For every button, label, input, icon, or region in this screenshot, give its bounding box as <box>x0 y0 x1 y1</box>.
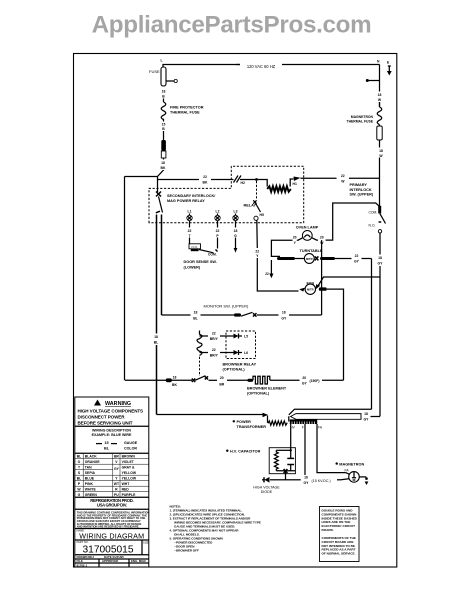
label 18 W <box>376 148 385 159</box>
svg-text:AppliancePartsPros.com: AppliancePartsPros.com <box>92 12 372 39</box>
svg-text:317005015: 317005015 <box>83 545 134 556</box>
coil top wire <box>200 335 209 337</box>
svg-text:22: 22 <box>203 175 207 179</box>
label 18 BL on left vertical <box>152 334 161 346</box>
svg-text:H2: H2 <box>241 181 245 185</box>
svg-text:USA GROUP DIV.: USA GROUP DIV. <box>97 502 127 507</box>
browner row splice <box>166 378 172 382</box>
svg-text:GY: GY <box>302 381 308 385</box>
svg-text:20: 20 <box>302 376 306 380</box>
svg-text:15: 15 <box>162 123 166 127</box>
svg-text:(15 KV.DC.): (15 KV.DC.) <box>312 479 331 483</box>
svg-text:81762-1: 81762-1 <box>77 563 88 567</box>
browner switch <box>192 379 195 383</box>
svg-text:HIGH VOLTAGE COMPONENTS: HIGH VOLTAGE COMPONENTS <box>78 408 144 413</box>
wire <box>270 379 300 381</box>
svg-text:N.O.: N.O. <box>369 224 376 228</box>
svg-text:FUSE: FUSE <box>149 69 160 74</box>
wire left vertical to transformer <box>157 414 263 416</box>
arrow terminal H1 <box>294 177 301 182</box>
svg-text:TRANSFORMER: TRANSFORMER <box>237 425 267 429</box>
junction node <box>255 178 258 181</box>
wire color table <box>75 452 149 454</box>
svg-text:RED: RED <box>122 488 130 492</box>
svg-text:15: 15 <box>104 441 108 445</box>
svg-text:22: 22 <box>255 249 259 253</box>
svg-text:L5: L5 <box>244 335 248 339</box>
svg-text:ORANGE: ORANGE <box>85 460 101 464</box>
splice X on bottom <box>284 469 288 473</box>
svg-text:VIOLET: VIOLET <box>122 460 135 464</box>
magnetron label <box>336 462 338 464</box>
svg-text:TURNTABLE: TURNTABLE <box>300 249 323 253</box>
wire down to COM junction <box>379 158 381 207</box>
svg-text:20: 20 <box>220 376 224 380</box>
connector cylinder <box>377 126 382 140</box>
turntable left connector <box>277 257 295 260</box>
svg-text:GY: GY <box>281 317 287 321</box>
svg-text:YELLOW: YELLOW <box>122 477 137 481</box>
svg-text:BK: BK <box>172 383 177 387</box>
wire feeder bottom <box>361 416 380 418</box>
svg-text:BROWNER RELAY: BROWNER RELAY <box>223 363 257 367</box>
coil bottom wire <box>200 352 209 354</box>
wire 22 Y down from relay <box>256 220 259 248</box>
svg-text:BL: BL <box>77 455 82 459</box>
wire left vertical to browner row <box>124 177 126 381</box>
label 18 BK <box>159 160 168 171</box>
svg-text:22: 22 <box>265 272 269 276</box>
primary interlock COM <box>378 206 381 214</box>
svg-text:L2: L2 <box>216 210 220 214</box>
primary interlock drop wire <box>379 233 381 255</box>
wire junction to left branch <box>125 176 158 178</box>
label 18 GY <box>362 411 371 423</box>
harness sleeve on feeder <box>291 414 362 420</box>
svg-text:COM.: COM. <box>368 210 377 214</box>
stub arrow below junction <box>270 260 272 274</box>
svg-text:L6: L6 <box>244 351 248 355</box>
dashed box secondary interlock / mag power relay <box>149 166 304 223</box>
wire lamp to primary interlock COM <box>326 203 380 240</box>
svg-text:BLUE: BLUE <box>85 477 95 481</box>
magnetron antenna <box>359 476 366 478</box>
primary interlock blade <box>380 213 386 223</box>
svg-text:18: 18 <box>161 161 165 165</box>
HV bus wire <box>286 479 301 481</box>
monitor riser wire <box>321 240 323 315</box>
svg-text:BR/Y: BR/Y <box>210 337 219 341</box>
magnetron thermal fuse <box>377 107 382 125</box>
svg-text:18: 18 <box>378 93 382 97</box>
svg-text:POWER: POWER <box>237 420 252 424</box>
link down to HV bus <box>285 471 287 480</box>
wire <box>379 140 381 148</box>
svg-text:N.O.: N.O. <box>192 245 199 249</box>
svg-text:20: 20 <box>293 236 297 240</box>
HV drop wire <box>290 424 292 450</box>
svg-text:H5: H5 <box>260 213 264 217</box>
primary interlock NO terminal <box>378 230 381 233</box>
svg-text:GAUGE: GAUGE <box>124 441 138 445</box>
transformer secondary comb <box>290 419 317 424</box>
svg-text:OVEN LAMP: OVEN LAMP <box>296 226 319 230</box>
svg-text:22: 22 <box>188 229 192 233</box>
svg-text:COLOR: COLOR <box>124 446 137 450</box>
fan left terminal <box>299 288 305 292</box>
svg-text:EXAMPLE: BLUE WIRE: EXAMPLE: BLUE WIRE <box>92 433 132 437</box>
junction dot tap <box>366 79 369 82</box>
svg-text:BROWNER ELEMENT: BROWNER ELEMENT <box>247 387 287 391</box>
svg-text:F: F <box>302 425 304 429</box>
svg-text:TAN: TAN <box>85 466 92 470</box>
svg-text:18: 18 <box>282 311 286 315</box>
fan right connector <box>319 287 327 290</box>
wire jog <box>158 158 164 192</box>
turntable drop wire <box>371 259 373 410</box>
svg-text:GY: GY <box>114 467 120 471</box>
svg-text:L3: L3 <box>234 210 238 214</box>
wire 22 BK to relay <box>158 179 200 181</box>
wire browner row <box>125 379 192 381</box>
magnetron tube <box>349 472 360 483</box>
monitor switch wire <box>162 314 191 316</box>
border frame <box>74 54 397 568</box>
svg-text:BL: BL <box>104 446 110 450</box>
diode L6 <box>234 350 239 355</box>
label 18 W <box>376 92 384 103</box>
svg-text:WHT: WHT <box>122 482 131 486</box>
svg-text:18: 18 <box>364 412 368 416</box>
relay coil <box>257 180 268 187</box>
browner relay coil <box>199 331 201 335</box>
label 18 GY <box>376 255 385 267</box>
svg-text:O: O <box>78 460 81 464</box>
svg-text:GY: GY <box>364 418 370 422</box>
relay switch H5 <box>253 200 256 203</box>
F drop wire <box>304 424 306 475</box>
svg-text:18: 18 <box>194 311 198 315</box>
label 22 P <box>213 228 222 238</box>
bleed resistor <box>274 450 278 470</box>
svg-text:22: 22 <box>212 332 216 336</box>
svg-text:BL: BL <box>77 477 82 481</box>
wire <box>163 99 165 103</box>
svg-text:SEPIA: SEPIA <box>85 471 96 475</box>
svg-text:WHITE: WHITE <box>85 488 97 492</box>
svg-text:RELAY: RELAY <box>244 204 257 208</box>
dashed link coil to switch <box>199 357 201 376</box>
svg-text:WIRING DIAGRAM: WIRING DIAGRAM <box>79 531 144 540</box>
monitor switch <box>234 313 241 316</box>
svg-text:L: L <box>161 59 163 63</box>
warning triangle <box>94 400 101 406</box>
svg-text:MAGNETRON: MAGNETRON <box>339 463 364 467</box>
svg-text:--BROWNER OFF: --BROWNER OFF <box>174 548 199 552</box>
svg-text:(150F): (150F) <box>310 379 320 383</box>
FA drop wire <box>317 424 346 473</box>
svg-text:INTERLOCK: INTERLOCK <box>350 188 372 192</box>
browner relay dashed box <box>226 331 256 359</box>
cap bottom wire <box>276 470 295 472</box>
svg-text:GY: GY <box>304 481 310 485</box>
svg-text:GRAY &: GRAY & <box>122 466 135 470</box>
svg-text:PINK: PINK <box>85 482 94 486</box>
capacitor symbol <box>290 450 292 458</box>
svg-text:(OPTIONAL): (OPTIONAL) <box>247 392 270 396</box>
svg-text:18: 18 <box>234 229 238 233</box>
splice connector solid <box>161 140 166 151</box>
svg-text:MONITOR SW. (UPPER): MONITOR SW. (UPPER) <box>204 303 249 308</box>
notes <box>170 504 261 552</box>
svg-text:WT: WT <box>114 482 120 486</box>
svg-text:DIODE: DIODE <box>261 490 273 494</box>
svg-text:H1: H1 <box>293 182 297 186</box>
svg-text:PART NO.: PART NO. <box>77 540 89 544</box>
svg-text:YELLOW: YELLOW <box>122 471 137 475</box>
title block outer box <box>75 397 149 567</box>
lamp left lead <box>297 238 303 240</box>
svg-text:OF NORMAL SERVICE.: OF NORMAL SERVICE. <box>322 552 356 556</box>
svg-text:GY: GY <box>354 260 360 264</box>
browner element <box>248 379 254 382</box>
relay switch dashed link <box>256 181 258 200</box>
wire N drop <box>379 65 381 108</box>
fan feed wire arrow from interlock <box>318 277 380 286</box>
svg-text:(OPTIONAL): (OPTIONAL) <box>223 368 246 372</box>
svg-text:FIRE PROTECTOR: FIRE PROTECTOR <box>170 106 204 110</box>
door sense switch N.O. <box>189 244 201 249</box>
circuit board note box <box>320 507 360 562</box>
wire 22 W to primary interlock <box>301 177 337 179</box>
cap internal top wire <box>276 449 290 451</box>
label 22 T <box>185 228 194 238</box>
svg-text:BOARD.: BOARD. <box>322 528 334 532</box>
diode L5 <box>234 334 239 339</box>
svg-text:BK: BK <box>161 166 166 170</box>
svg-text:PRIMARY: PRIMARY <box>350 183 368 187</box>
svg-text:18: 18 <box>379 149 383 153</box>
svg-text:22: 22 <box>212 348 216 352</box>
legal paragraph <box>77 511 150 529</box>
svg-text:SW. (UPPER): SW. (UPPER) <box>350 193 374 197</box>
svg-text:MAGNETRON: MAGNETRON <box>351 115 374 119</box>
svg-text:22: 22 <box>216 229 220 233</box>
svg-text:BROWN: BROWN <box>122 455 136 459</box>
wire twin drops <box>156 215 158 415</box>
svg-text:(LOWER): (LOWER) <box>184 266 201 270</box>
label 18 G <box>231 228 240 238</box>
svg-text:18: 18 <box>173 376 177 380</box>
secondary interlock switch <box>156 192 161 197</box>
wire lamp to turntable junction <box>271 240 292 256</box>
svg-text:HIGH VOLTAGE: HIGH VOLTAGE <box>253 486 280 490</box>
svg-text:H.V. CAPACITOR: H.V. CAPACITOR <box>230 450 261 454</box>
high voltage diode <box>270 479 286 481</box>
svg-text:18: 18 <box>154 335 158 339</box>
HV capacitor box <box>269 448 295 474</box>
svg-text:120 VAC 60 HZ: 120 VAC 60 HZ <box>247 64 276 69</box>
svg-text:M/TR: M/TR <box>306 257 313 261</box>
lamp right lead <box>312 238 318 240</box>
turntable right connector <box>315 256 319 260</box>
svg-text:DISCONNECT POWER: DISCONNECT POWER <box>78 415 126 420</box>
svg-text:BK: BK <box>203 181 208 185</box>
svg-text:BL: BL <box>193 317 198 321</box>
power transformer label <box>233 420 235 422</box>
HV capacitor label <box>226 450 228 452</box>
fire protector thermal fuse <box>161 102 166 120</box>
svg-text:MAG POWER RELAY: MAG POWER RELAY <box>167 199 205 203</box>
svg-text:18: 18 <box>378 256 382 260</box>
svg-text:GY: GY <box>378 262 384 266</box>
svg-text:BR: BR <box>114 455 119 459</box>
svg-text:18: 18 <box>162 90 166 94</box>
svg-text:SECONDARY INTERLOCK/: SECONDARY INTERLOCK/ <box>167 194 216 198</box>
svg-text:THERMAL FUSE: THERMAL FUSE <box>347 120 374 124</box>
svg-text:16: 16 <box>304 476 308 480</box>
svg-text:DOOR SENSE SW.: DOOR SENSE SW. <box>184 260 217 264</box>
svg-text:22: 22 <box>355 254 359 258</box>
arrow terminal into transformer <box>263 413 269 418</box>
svg-text:L1: L1 <box>188 210 192 214</box>
magnetron legs <box>346 473 350 475</box>
svg-text:G: G <box>234 234 237 238</box>
wire 22 GY <box>335 258 352 260</box>
transformer primary coil <box>267 416 269 423</box>
svg-text:BR/Y: BR/Y <box>210 354 219 358</box>
wire fan to browner riser <box>327 289 344 380</box>
svg-text:22: 22 <box>341 174 345 178</box>
door sense blade <box>199 250 214 253</box>
svg-text:BL: BL <box>154 341 159 345</box>
svg-text:BEFORE SERVICING UNIT: BEFORE SERVICING UNIT <box>78 421 133 426</box>
wire feeder top <box>289 409 372 415</box>
wire 120VAC top line <box>163 65 380 68</box>
svg-text:BLACK: BLACK <box>85 455 97 459</box>
svg-text:BR: BR <box>219 382 224 386</box>
svg-text:M/TR: M/TR <box>307 288 314 292</box>
svg-text:COM.: COM. <box>208 253 217 257</box>
svg-text:THERMAL FUSE: THERMAL FUSE <box>170 111 200 115</box>
wire <box>163 119 165 122</box>
ground arrow under L3 <box>234 248 238 253</box>
svg-text:20: 20 <box>320 236 324 240</box>
switch H2 <box>234 176 242 183</box>
svg-text:WARNING: WARNING <box>105 401 131 407</box>
svg-text:SIZE: SIZE <box>143 541 149 545</box>
